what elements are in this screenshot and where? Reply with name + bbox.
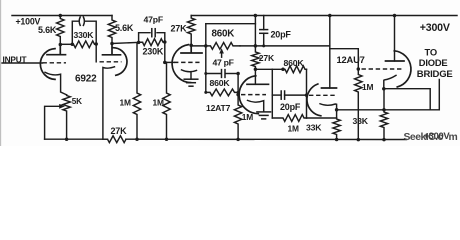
resistor R9 860K adjustable [206, 43, 240, 50]
wire plate2 to 230K [112, 42, 143, 43]
tube V1a 6922 envelope [40, 49, 55, 80]
tube V1a grid [43, 62, 67, 64]
resistor R14 1M grid [272, 115, 306, 122]
node 1M fifth bottom [357, 138, 361, 142]
wire bracket left rail [205, 46, 207, 93]
wire V3b grid feed [330, 49, 359, 69]
wire grid3 drop [164, 42, 166, 62]
svg-text:47pF: 47pF [144, 14, 163, 24]
wire +100V supply rail [12, 15, 112, 17]
wire cap lead right [85, 21, 97, 44]
wire plate4 lead [254, 69, 256, 84]
wire ground bus left [45, 138, 108, 140]
svg-text:1M: 1M [288, 123, 299, 133]
wire ground bus right [126, 138, 407, 140]
svg-text:330K: 330K [74, 30, 95, 40]
svg-text:230K: 230K [143, 47, 164, 57]
node 860K bracket right end [237, 91, 240, 94]
wire output upper loop [384, 89, 430, 110]
tube V2b 12AT7 envelope [239, 76, 258, 114]
wire RC to cathode column [307, 117, 337, 119]
node 1M second bottom [165, 137, 169, 141]
wire row to plate line [240, 45, 330, 47]
tube V1a cathode [45, 72, 67, 95]
node grid3 junction [163, 61, 167, 65]
tube V3b cathode [384, 75, 396, 88]
resistor R5 230K [139, 39, 165, 46]
svg-text:1M: 1M [153, 97, 164, 107]
wire +300V supply rail [191, 15, 457, 17]
node plate2 junction [110, 42, 114, 46]
tube V3b plate [386, 60, 405, 62]
node rail to V3a plate [328, 14, 332, 18]
capacitor C1 across 330K [79, 17, 80, 25]
tube V1b 6922 envelope [112, 48, 127, 76]
tube V2b grid [241, 94, 266, 96]
tube V2a grid [174, 61, 200, 63]
capacitor C5 20pF grid [272, 94, 280, 96]
node 33K first bottom [335, 138, 339, 142]
svg-text:INPUT: INPUT [3, 54, 27, 64]
node 1M first bottom [135, 137, 139, 141]
tube V1b grid [100, 61, 122, 63]
resistor R8 27K plate resistor [188, 16, 195, 46]
node 330K left [71, 43, 75, 47]
svg-text:5.6K: 5.6K [38, 25, 57, 35]
node V3b grid junction [357, 67, 361, 71]
wire V3b plate lead [394, 16, 396, 62]
tube V2a cathode [182, 70, 197, 79]
tube V3a plate [322, 87, 337, 89]
tube V3b grid [362, 68, 404, 70]
svg-text:+300V: +300V [424, 130, 451, 141]
left border artifact [0, 0, 2, 146]
tube V2a plate [181, 45, 202, 53]
svg-text:27K: 27K [259, 53, 275, 63]
node 230K right junction [163, 40, 167, 44]
wire bracket right rail [237, 74, 239, 95]
node 230K left junction [137, 41, 141, 45]
wire V3a plate lead [329, 16, 331, 89]
svg-text:5K: 5K [72, 97, 82, 106]
svg-text:860K: 860K [210, 78, 231, 88]
tube V3a 12AU7 envelope [307, 84, 321, 116]
wire 860K box top [206, 23, 256, 25]
wire grid3 stub [165, 61, 174, 63]
node 860K pot left [204, 44, 208, 48]
tube V3a grid [309, 94, 336, 96]
wire cap lead left [72, 21, 79, 44]
svg-text:12AU7: 12AU7 [337, 54, 365, 65]
tube V2a 12AT7 envelope [172, 45, 190, 83]
svg-text:BRIDGE: BRIDGE [417, 69, 453, 80]
svg-text:860K: 860K [284, 58, 305, 68]
tube V3b 12AU7 envelope [394, 51, 411, 87]
node 33K second bottom [382, 138, 386, 142]
node T5 grid junction [305, 93, 309, 97]
ground G1 cathode V2a [184, 78, 198, 80]
svg-text:27K: 27K [111, 126, 128, 136]
svg-text:20pF: 20pF [271, 30, 292, 40]
svg-text:TO: TO [425, 47, 437, 58]
node plate3 junction [189, 44, 193, 48]
resistor R11 1M to bus [234, 95, 241, 140]
wire 860K box left rail [205, 24, 207, 46]
capacitor C2 47pF bracket [139, 33, 165, 43]
wire plate1 to 330K [60, 43, 73, 45]
svg-text:860K: 860K [212, 28, 235, 39]
svg-text:20pF: 20pF [280, 102, 301, 112]
node row crossing [254, 44, 258, 48]
node 860K bracket left end [204, 91, 207, 94]
node bracket cap right [236, 72, 240, 76]
node grid4 junction [236, 93, 240, 97]
svg-text:1M: 1M [120, 97, 131, 107]
svg-text:1M: 1M [362, 82, 373, 92]
capacitor C3 47pF second [206, 73, 221, 75]
node 330K right [94, 42, 98, 46]
wire grid RC left rail [271, 69, 273, 118]
resistor R15 33K cathode [333, 110, 340, 140]
resistor R16 1M grid leak V3b [355, 69, 362, 140]
svg-text:+300V: +300V [420, 22, 450, 34]
node cathode6 junction [382, 87, 386, 91]
wire output row to bridge [337, 80, 440, 110]
resistor R3 5K cathode pot [63, 95, 70, 139]
wire 5K wiper arm [45, 106, 61, 139]
node 5K bottom to bus [65, 137, 69, 141]
node plate1 junction [59, 43, 63, 47]
node 860K2 left [281, 68, 285, 72]
svg-text:5.6K: 5.6K [115, 23, 134, 33]
node 1M fourth bottom [236, 138, 240, 142]
tube V1b cathode [103, 67, 115, 139]
resistor R4 5.6K plate resistor B [108, 16, 115, 44]
svg-text:6922: 6922 [75, 74, 97, 85]
tube V1a plate [47, 45, 66, 55]
resistor R10 860K feedback [206, 89, 238, 96]
node rail to 27K second [254, 14, 258, 18]
resistor R17 33K output [380, 89, 387, 140]
resistor R12 27K plate resistor B [252, 16, 259, 70]
node rail to 5.6K first [59, 14, 63, 18]
resistor R6 1M to bus first [133, 44, 140, 140]
resistor R18 27K in bus [103, 136, 126, 143]
svg-text:33K: 33K [306, 122, 322, 132]
wire plate4 row [255, 68, 272, 70]
node 33K2 row junction [382, 108, 386, 112]
wire input [2, 62, 43, 64]
capacitor C4 20pF to rail [263, 16, 265, 30]
tube V3a cathode [320, 104, 337, 110]
node bracket cap left [204, 72, 207, 75]
node 20pF bottom junction [262, 44, 265, 47]
svg-text:m: m [449, 132, 458, 143]
arrow 5K wiper head [59, 104, 65, 109]
resistor R13 860K coupling [272, 66, 306, 73]
tube V1b plate [103, 44, 121, 55]
ground G2 cathode V2b [257, 111, 271, 113]
tube V2b cathode [248, 100, 264, 111]
node rail to V3b plate [393, 14, 397, 18]
resistor R1 5.6K plate resistor A [57, 16, 64, 45]
resistor R2 330K feedback [72, 41, 96, 48]
wire plate3 to 860K pot [191, 45, 206, 47]
arrow R9 wiper [219, 48, 224, 53]
svg-text:47 pF: 47 pF [213, 58, 234, 68]
tube V2b plate [247, 83, 269, 85]
svg-text:DIODE: DIODE [419, 57, 448, 68]
wire grid RC right rail [306, 69, 308, 118]
node plate4 junction [254, 68, 258, 72]
svg-text:+100V: +100V [16, 17, 41, 27]
svg-text:27K: 27K [171, 24, 188, 34]
wire grid2 lead [95, 44, 97, 62]
resistor R7 1M grid leak [163, 62, 170, 139]
svg-text:33K: 33K [353, 116, 369, 126]
node cathode5 junction [335, 108, 339, 112]
svg-text:12AT7: 12AT7 [206, 103, 231, 113]
